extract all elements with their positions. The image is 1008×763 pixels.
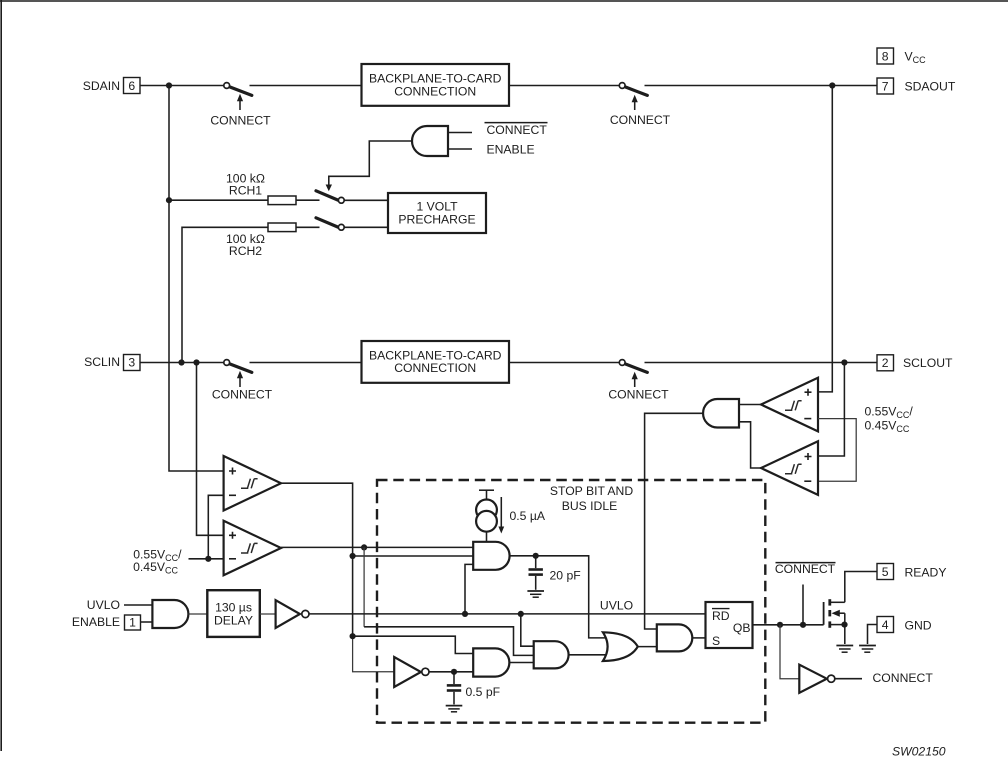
svg-text:ENABLE: ENABLE [487,142,535,156]
svg-text:UVLO: UVLO [600,599,633,613]
schmitt comparator U4 (SCL card sense, right side, points left) [761,441,818,495]
arrow current direction [498,497,504,534]
node QB to inverter [777,622,783,628]
arrow onto RCH1 switch [326,185,332,192]
current source I1 [476,490,497,542]
wire delay to inverter [260,613,276,615]
svg-text:SDAOUT: SDAOUT [905,80,956,94]
wire U8 out to delay [188,613,207,615]
OR gate U13 [603,632,638,661]
transistor Q1 (READY pulldown) [824,599,845,628]
wire U10 output [510,556,608,638]
svg-text:5: 5 [882,565,889,579]
AND gate B (bus idle) [473,648,509,676]
flip-flop U14 RD/S QB [706,602,753,648]
svg-text:SW02150: SW02150 [892,745,946,759]
capacitor C1 20 pF [529,556,543,590]
wire ref to U6 minus [208,495,223,559]
svg-text:RCH2: RCH2 [229,244,262,258]
node SCL sense junction [193,359,199,365]
resistor RCH1 100k [169,172,320,205]
svg-text:0.5 µA: 0.5 µA [510,509,546,523]
wire SDA vertical to comparator [169,86,224,472]
wire switch to pin7 [645,85,878,87]
label CONNECT-bar input [485,123,548,138]
wire U7 output to AND A input1 [281,546,473,548]
node QB to connect-bar [800,622,806,628]
node RCH2-SCL junction [178,359,184,365]
svg-text:CONNECTION: CONNECTION [394,84,476,98]
wire U7 branch to gate C input2 [363,547,365,626]
wire source to ground [844,625,846,644]
inverter U15 (CONNECT driver) [799,665,835,693]
switch S4 CONNECT (SCL card) [608,360,669,402]
svg-text:STOP BIT AND: STOP BIT AND [550,484,634,498]
svg-text:CONNECT: CONNECT [212,388,273,402]
pin 5 READY [877,564,947,580]
border frame top [0,0,1008,2]
wire U7 branch jog to gate C [364,627,534,656]
AND gate C [534,641,569,668]
node SCLOUT junction [841,359,847,365]
svg-text:PRECHARGE: PRECHARGE [398,212,475,226]
block 130us DELAY [207,590,259,637]
wire UVLO branch to gate C input1 [521,614,534,646]
svg-text:6: 6 [128,79,135,93]
node UVLO to U10 [462,611,468,617]
switch S5 precharge RCH1 [316,191,388,203]
wire SCL sense vertical [197,363,224,536]
wire pin1 to U8 [141,621,153,623]
svg-text:1: 1 [129,616,136,630]
label 0.55/0.45 VCC right [865,405,914,435]
svg-text:GND: GND [905,619,932,633]
wire to AND A input2 [353,555,474,557]
block BACKPLANE-TO-CARD CONNECTION (SDA) [362,64,510,106]
ground Q1 [836,646,853,653]
switch S6 precharge RCH2 [316,218,388,230]
svg-text:1 VOLT: 1 VOLT [416,199,458,213]
wire connect-bar stub [802,585,804,625]
svg-text:4: 4 [882,618,889,632]
wire UVLO net [309,613,706,615]
switch S3 CONNECT (SCL backplane) [212,360,273,402]
ground C1 [527,591,544,597]
border frame left [0,0,2,751]
svg-text:UVLO: UVLO [87,598,120,612]
svg-text:3: 3 [128,356,135,370]
node RCH1 junction [166,197,172,203]
svg-text:CONNECT: CONNECT [610,113,671,127]
pin 7 SDAOUT [877,78,956,94]
pin 8 VCC [877,48,926,65]
svg-text:SCLOUT: SCLOUT [903,356,953,370]
svg-text:CONNECT: CONNECT [487,123,548,137]
inverter U9 (delay buffer) [276,600,309,628]
wire pin6 to node SDA [140,85,224,87]
wire gate D out to flip-flop S [692,637,705,639]
pin 1 ENABLE [125,615,141,630]
switch S1 CONNECT (SDA backplane) [210,83,271,128]
block BACKPLANE-TO-CARD CONNECTION (SCL) [362,341,510,383]
wire U15 out [835,678,862,680]
dashed box STOP BIT AND BUS IDLE [377,480,765,723]
svg-text:BUS IDLE: BUS IDLE [562,499,618,513]
switch S2 CONNECT (SDA card) [610,83,671,127]
wire RCH2 from SCL [182,227,268,362]
wire U3 out to U5 [739,404,761,406]
wire U5 output down to gate U12 [645,413,703,629]
AND gate U10 (stop bit) [473,542,509,570]
AND gate D (set logic) [657,624,693,651]
svg-text:SDAIN: SDAIN [83,79,120,93]
svg-text:S: S [712,634,720,648]
wire QB to inverter U15 [780,625,799,679]
wire box to switch S4 [509,362,620,364]
wire SDAOUT sense vertical [818,86,832,392]
wire pin3 to switch [140,362,224,364]
node ref junction [205,556,211,562]
node source junction [841,622,847,628]
wire U2 output to RCH1 switch arrow [329,141,412,185]
capacitor C2 0.5 pF [447,672,461,705]
node UVLO to gate C [518,611,524,617]
node U7 out branch [361,544,367,550]
wire switch to box [250,85,362,87]
pin 3 SCLIN [84,355,140,371]
svg-text:DELAY: DELAY [214,614,253,628]
pin 2 SCLOUT [877,355,953,371]
wire left minus ref [189,558,224,560]
svg-text:CONNECT: CONNECT [873,671,934,685]
AND gate U5 (card sense combine, mirrored) [703,399,739,428]
svg-text:7: 7 [882,80,889,94]
svg-text:READY: READY [905,566,947,580]
wire GND pin to ground [868,625,878,645]
wire switch to pin2 [645,362,878,364]
wire QB output [753,624,824,626]
label 0.55/0.45 VCC left [133,548,182,576]
label CONNECT-bar [775,562,836,576]
node SDAOUT junction [829,82,835,88]
svg-text:CONNECT: CONNECT [210,113,271,127]
wire box to switch S2 [509,85,620,87]
wire U3 minus ref [818,419,856,482]
inverter U11 (idle detect) [394,657,429,687]
svg-text:ENABLE: ENABLE [72,615,120,629]
wire drain to READY [845,572,877,603]
svg-text:RCH1: RCH1 [229,184,262,198]
wire U6 output down [281,483,353,636]
wire SCLOUT sense vertical [818,363,844,457]
node U6 out to gate B [350,633,356,639]
svg-text:CONNECT: CONNECT [775,562,836,576]
schmitt comparator U7 (SCL backplane sense, left) [224,521,281,576]
svg-text:0.5 pF: 0.5 pF [466,685,501,699]
AND gate U8 (UVLO/ENABLE) [152,600,188,628]
node 0.5pF tap [451,669,457,675]
pin 4 GND [877,617,932,633]
wire gate C out to OR [569,654,608,656]
svg-text:130 µs: 130 µs [215,601,252,615]
svg-text:2: 2 [882,356,889,370]
svg-text:20 pF: 20 pF [550,569,581,583]
resistor RCH2 100k [226,223,319,258]
ground C2 [446,706,463,712]
wire UVLO to U8 [124,604,152,606]
wire to gate B input1 [353,636,474,653]
pin 6 SDAIN [83,78,140,94]
wire U6 out to idle inverter [353,636,395,672]
wire U4 out to U5 [739,422,761,468]
svg-text:QB: QB [733,621,751,635]
ground GND pin [859,646,876,653]
svg-text:SCLIN: SCLIN [84,355,120,369]
wire gate B out to gate C input3 [509,662,533,664]
svg-text:CONNECT: CONNECT [608,388,669,402]
node SDA junction [166,82,172,88]
svg-text:RD: RD [712,609,730,623]
svg-text:CONNECTION: CONNECTION [394,361,476,375]
wire OR out to gate D [638,646,657,648]
node U6 out to and A [350,553,356,559]
wire U11 out to gate B input2 [429,671,473,673]
wire switch to box [250,362,362,364]
node 20pF tap [533,553,539,559]
schmitt comparator U6 (SDA backplane sense, left) [224,456,281,511]
wire U10 input3 from UVLO [465,564,473,614]
AND gate U2 (CONNECT/ENABLE, mirrored) [412,126,472,156]
block 1 VOLT PRECHARGE [388,193,486,233]
svg-text:8: 8 [882,50,889,64]
schmitt comparator U3 (SDA card sense, right side, points left) [761,378,818,432]
label STOP BIT AND BUS IDLE [550,484,634,513]
